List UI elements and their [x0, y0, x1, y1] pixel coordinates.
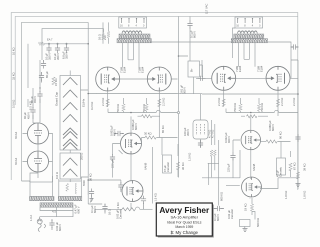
svg-text:6AN8: 6AN8 [252, 163, 256, 171]
EL84 V3 [96, 67, 120, 91]
output transformer T2 secondary box [235, 17, 263, 28]
title block box [156, 203, 212, 236]
resistor cathode V5 [222, 99, 225, 107]
svg-text:6CA4: 6CA4 [14, 131, 18, 139]
svg-text:56 KΩ: 56 KΩ [89, 173, 93, 181]
T1 core hatch upper [119, 34, 150, 38]
wire screen feed top [179, 56, 203, 77]
wire title block feed [152, 147, 154, 204]
svg-text:16 Ω: 16 Ω [108, 209, 112, 215]
svg-text:13 KΩ: 13 KΩ [116, 202, 120, 210]
guard cap box upper [60, 76, 81, 151]
EL84 V5 [212, 66, 236, 90]
svg-text:4.5: 4.5 [52, 210, 56, 214]
wire EL84 row bus [88, 78, 298, 93]
capacitor top center [187, 21, 192, 29]
svg-text:10 KΩ: 10 KΩ [12, 47, 16, 55]
label 33 KOhm [45, 71, 49, 78]
svg-text:400 V: 400 V [113, 129, 117, 136]
resistor 750K V6 [257, 98, 260, 113]
wire right channel top of lower tube [202, 177, 240, 179]
label 5.5 KOhm [29, 100, 33, 110]
resistor 750K V5 [239, 98, 242, 113]
resistor plate V7 horizontal [142, 136, 162, 139]
capacitor 220uF left [110, 154, 115, 162]
resistor 750K V3 [122, 98, 125, 113]
svg-text:6AN8: 6AN8 [144, 162, 148, 170]
resistor plate V9 horizontal [261, 140, 278, 143]
svg-text:65 µF: 65 µF [45, 71, 49, 78]
ground input [90, 196, 94, 203]
T2 terminal 0 [259, 18, 260, 23]
wire bottom right channel [226, 150, 298, 220]
resistor cathode V4 [158, 99, 161, 107]
label 39 Kohm right rail [303, 163, 307, 171]
svg-text:15 KΩ: 15 KΩ [54, 78, 58, 86]
label 5500 ohm winding [82, 180, 86, 186]
node open circle divider [177, 111, 179, 113]
T1 terminal 8 [128, 18, 129, 23]
capacitor box bottom right [240, 220, 251, 227]
label 10uF 350V no1 [44, 53, 51, 60]
wire grid bus left channel [108, 109, 178, 117]
resistor 30K vertical left [176, 150, 179, 177]
resistor right rail [296, 172, 299, 179]
capacitor right rail [295, 134, 300, 142]
T1 core hatch lower [117, 39, 151, 43]
svg-text:210: 210 [103, 35, 107, 40]
label 47uF Ceramic left [163, 161, 170, 172]
capacitor 40uF 450V lower [30, 104, 35, 119]
label 0.022uF 400V [224, 132, 231, 143]
label 7189/EL84 V5 [235, 65, 242, 72]
label 0.1uF 600V top [190, 30, 197, 38]
label 6CA4 lower [14, 157, 18, 165]
label 10uF 350V no2 [53, 53, 60, 60]
winding hatch right [58, 197, 82, 201]
label 0.02uF ceramic bottom mid [116, 208, 123, 219]
label 30 Kohm plate [144, 132, 152, 136]
svg-text:March 1959: March 1959 [175, 225, 193, 229]
label 6N07 right [252, 163, 256, 171]
label 65 Kohm [161, 125, 165, 133]
label 220uF right [227, 163, 231, 172]
wire top center cap branch [189, 16, 191, 61]
label 200 ohm left edge [80, 153, 84, 160]
capacitor C filter 3 [64, 44, 69, 53]
wire T1 left components [103, 22, 109, 43]
chevron 8 [63, 169, 77, 177]
label 750 Kohm g1 V6 [260, 103, 264, 112]
title block shadow [158, 205, 214, 238]
label 2.2 Kohm V3 [101, 98, 105, 106]
title text Avery Fisher [159, 205, 210, 215]
label 100uF 350V [183, 127, 190, 136]
svg-text:Ceramic: Ceramic [279, 166, 283, 177]
svg-text:0.2 KΩ: 0.2 KΩ [90, 102, 94, 110]
svg-text:1.5 KΩ: 1.5 KΩ [154, 193, 158, 201]
svg-text:39 KΩ: 39 KΩ [303, 163, 307, 171]
label 6.8uF 350V [61, 51, 68, 59]
svg-text:600 V: 600 V [193, 31, 197, 38]
capacitor heater can bottom [198, 140, 203, 148]
svg-text:600 V: 600 V [77, 206, 81, 213]
fuse F1 [37, 217, 42, 224]
label 500 Kohm [256, 218, 260, 227]
label EL84s [82, 98, 86, 107]
border frame outer [11, 13, 298, 190]
guard cap box lower [60, 153, 81, 179]
chevron 6 [63, 139, 77, 150]
T1 terminal 16 [121, 18, 122, 23]
resistor small left of T1 [102, 32, 110, 40]
box screen supply [188, 61, 200, 77]
label 0.02uF 600V ac [55, 221, 62, 231]
wire transformer risers [30, 173, 88, 182]
power transformer secondary box right [59, 181, 82, 197]
label 4.7K 4.7K [208, 130, 215, 138]
svg-text:750 KΩ: 750 KΩ [116, 104, 120, 113]
wire guard to bus [81, 29, 104, 90]
T2 terminal 16 [237, 18, 238, 23]
svg-text:2.2 KΩ: 2.2 KΩ [101, 98, 105, 106]
wire screen box down [193, 77, 195, 94]
T2 terminal 8 [245, 18, 246, 23]
svg-text:200 Ω: 200 Ω [80, 153, 84, 160]
power transformer secondary box left [30, 182, 53, 197]
heater can [193, 120, 208, 139]
wire V7 plate right [142, 138, 179, 156]
svg-text:110 Ω: 110 Ω [55, 172, 59, 179]
chevron 3 [63, 103, 77, 111]
rectifier tube V2 6CA4 [28, 151, 49, 172]
label 750 Kohm g1 V4 [142, 104, 146, 113]
svg-text:EA 7: EA 7 [47, 38, 53, 42]
label 56 Kohm input [89, 173, 93, 181]
svg-text:Avery Fisher: Avery Fisher [159, 205, 210, 215]
capacitor C filter 2 [55, 44, 60, 53]
title text My Change [171, 230, 199, 235]
svg-text:33 KΩ: 33 KΩ [12, 72, 16, 80]
svg-text:30 KΩ: 30 KΩ [181, 162, 185, 170]
wire primary leads [40, 207, 73, 217]
svg-text:500 KΩ: 500 KΩ [256, 218, 260, 227]
label 220uF left [111, 159, 115, 168]
chevron 1 [63, 78, 77, 86]
wire V9 plate right [278, 142, 291, 159]
capacitor bottom mid [102, 204, 107, 214]
svg-text:EL84s: EL84s [82, 98, 86, 107]
svg-text:2.2 KΩ: 2.2 KΩ [217, 98, 221, 106]
capacitor node left bottom [141, 196, 146, 210]
T2 terminal 4 [252, 18, 253, 23]
svg-text:Ceramic: Ceramic [230, 208, 234, 219]
wire T2 right to edge [179, 42, 299, 78]
label 750 Kohm g1 V5 [233, 103, 237, 112]
driver tube V10 [242, 177, 262, 197]
label 1.5 Kohm left [188, 153, 192, 161]
svg-text:Ceramic: Ceramic [119, 208, 123, 219]
driver tube V9 [241, 130, 261, 150]
label 40uF 450V lower [23, 112, 30, 119]
label B inside box [190, 68, 194, 72]
wire box corner right channel input [208, 140, 219, 206]
resistor 4.7K a [210, 150, 213, 177]
svg-text:600 KΩ: 600 KΩ [220, 192, 224, 201]
label 2.2 Kohm V6 [280, 98, 284, 106]
EL84 V6 [266, 66, 290, 90]
label 6N07 left [144, 162, 148, 170]
resistor 19K below V10 [250, 198, 253, 215]
capacitor 0.003uF V7 grid [114, 131, 124, 136]
label 0.61uF 600V [180, 84, 187, 94]
T2 terminal labels [236, 25, 261, 28]
wire V9 connections [233, 116, 261, 179]
label 13 Kohm [116, 202, 120, 210]
label 0.003uF 400V [110, 125, 117, 136]
T1 terminal 0 [143, 18, 144, 23]
wire heater can top [200, 94, 202, 115]
svg-text:350 V: 350 V [56, 53, 60, 60]
label 0.1uF 600V input [90, 205, 97, 213]
svg-text:1.0 A: 1.0 A [29, 215, 33, 221]
svg-text:EL84: EL84 [123, 66, 127, 73]
label 7189/EL84 V4 [138, 66, 145, 73]
output transformer T1 secondary box [119, 17, 147, 28]
label 40uF 450V upper [30, 96, 37, 103]
wire grid bus right channel [226, 109, 298, 117]
PSU enclosure wire [42, 29, 104, 60]
driver tube V8 [122, 181, 143, 202]
svg-text:B+: B+ [190, 68, 194, 72]
rectifier tube V1 6CA4 [28, 123, 49, 144]
T2 secondary coil [238, 31, 258, 34]
label 0.02uF ceramic right [227, 208, 234, 219]
svg-text:2.2 KΩ: 2.2 KΩ [162, 98, 166, 106]
resistor 67K vertical right [289, 151, 292, 177]
label 110 ohm winding [55, 172, 59, 179]
resistor cathode V3 [106, 99, 109, 107]
svg-text:SA-16 Amplifier: SA-16 Amplifier [171, 215, 199, 220]
svg-text:65 KΩ: 65 KΩ [161, 125, 165, 133]
label 4.5 [52, 210, 56, 214]
ground bottom right cap [243, 227, 248, 232]
svg-text:Guard Cap: Guard Cap [55, 91, 59, 106]
wire heater resistors [212, 120, 215, 145]
svg-text:400 V: 400 V [227, 136, 231, 143]
T1 terminal 4 [136, 18, 137, 23]
resistor between grids right [247, 115, 258, 118]
label 2.2 Kohm V5 [217, 98, 221, 106]
wire rectifier to transformer [38, 134, 53, 183]
chevron 4 [63, 115, 77, 123]
svg-text:350 V: 350 V [64, 52, 68, 59]
resistor 15 KOhm vertical [39, 72, 44, 83]
T1 secondary coil [122, 31, 142, 34]
resistor between grids [142, 115, 153, 118]
label 33 Kohm left strip [12, 72, 16, 80]
wire rectifier return corner [22, 181, 30, 182]
wire T1 right to divider [151, 42, 178, 56]
border frame second line [15, 16, 297, 105]
capacitor input coupling [89, 189, 94, 197]
winding hatch left [30, 197, 55, 201]
AC cord squiggle [38, 224, 45, 232]
svg-text:600 V: 600 V [134, 123, 138, 130]
label 1.0 A [29, 215, 33, 221]
driver tube V7 [121, 133, 142, 154]
svg-text:30 KΩ: 30 KΩ [144, 132, 152, 136]
node dots junctions [87, 43, 298, 181]
resistor 4.7K b [213, 150, 216, 170]
label 67 Kohm [293, 162, 297, 170]
svg-text:600 V: 600 V [216, 214, 220, 221]
label 2.2 Kohm V4 [162, 98, 166, 106]
primary hatch wide [40, 203, 73, 207]
ground right rail [296, 184, 301, 187]
capacitor snubber right [291, 44, 299, 49]
capacitor line cap [49, 219, 54, 230]
resistor cathode V6 [276, 99, 279, 107]
svg-text:67 KΩ: 67 KΩ [293, 162, 297, 170]
resistor 33 KOhm vertical left [41, 60, 46, 69]
title text SA-16 Amplifier [171, 215, 199, 220]
T2 core hatch lower [231, 39, 267, 43]
T2 primary leads down [239, 43, 256, 67]
resistor inside winding box [66, 184, 69, 192]
wire B+ bus left [87, 22, 89, 195]
chevron 7 [63, 158, 77, 166]
label 2.2 Kohm right edge [292, 98, 296, 106]
wire right edge rail [297, 60, 299, 189]
label 750 Kohm g1 V3 [116, 104, 120, 113]
wire PSU filter bus [44, 43, 88, 45]
capacitor 47uF ceramic box [163, 155, 172, 173]
wire V7 connections [113, 116, 132, 181]
label 7189/EL84 V6 [257, 65, 264, 72]
svg-text:19 KΩ: 19 KΩ [244, 203, 248, 211]
svg-text:450 V: 450 V [33, 96, 37, 103]
wire guard cap to bus [69, 71, 71, 183]
svg-text:1.5 KΩ: 1.5 KΩ [188, 153, 192, 161]
svg-text:EL84: EL84 [260, 65, 264, 72]
svg-text:350 V: 350 V [186, 129, 190, 136]
svg-text:117 VAC: 117 VAC [205, 4, 209, 14]
capacitor V5 grid feed [198, 76, 206, 81]
svg-text:350 V: 350 V [47, 53, 51, 60]
T1 primary leads down [123, 43, 140, 68]
svg-text:6CA4: 6CA4 [14, 157, 18, 165]
wire rectifier plates left [23, 134, 28, 162]
title text March 1959 [175, 225, 193, 229]
svg-text:90 KΩ: 90 KΩ [279, 131, 283, 139]
label EA7 small [47, 38, 53, 42]
svg-text:16 Ω: 16 Ω [98, 34, 102, 40]
label 90 Kohm [279, 131, 283, 139]
chevron 5 double [63, 128, 77, 139]
label 1.8 Kohm right [284, 191, 288, 199]
svg-text:EL84: EL84 [141, 66, 145, 73]
chevron 2 [63, 90, 77, 98]
label 0.1uF 600V feedback [213, 213, 220, 221]
wire bottom bus left channel [88, 180, 131, 209]
label 0.068uF 600V [131, 119, 138, 130]
label 30 Kohm vertical [181, 162, 185, 170]
wire EL84 cathodes down [108, 90, 278, 137]
svg-text:750 KΩ: 750 KΩ [233, 103, 237, 112]
svg-text:5500: 5500 [82, 180, 86, 186]
svg-text:Ideal For Quad ESLs: Ideal For Quad ESLs [167, 221, 202, 225]
resistor 750K V4 [145, 98, 148, 113]
T2 core hatch upper [234, 34, 264, 38]
title text Ideal For Quad ESLs [167, 221, 202, 225]
wire mid horizontal y94 [96, 93, 298, 96]
wire T2 left drop [233, 28, 236, 58]
EL84 V4 [147, 67, 171, 91]
svg-text:600 V: 600 V [183, 87, 187, 94]
T1 terminal labels [120, 25, 145, 28]
resistor on filter bus [39, 42, 45, 45]
capacitor feedback bottom right [213, 206, 224, 211]
svg-text:2.2 KΩ: 2.2 KΩ [280, 98, 284, 106]
label 117 VAC top [205, 4, 209, 14]
label 210 ohm [103, 35, 107, 40]
capacitor 40uF 450V upper [37, 88, 42, 103]
label 0.47uF 600V bottom [74, 204, 81, 214]
wire heater can [200, 115, 202, 147]
capacitor 47uF ceramic right [277, 158, 286, 175]
capacitor input coupling V8 [118, 182, 123, 190]
svg-text:Ceramic: Ceramic [166, 161, 170, 172]
capacitor C filter 1 [46, 44, 51, 53]
wire psu column verticals [28, 44, 40, 123]
label 1.5 Kohm above title [154, 193, 158, 201]
label 600 Kohm [220, 192, 224, 201]
resistor 13K below V8 [122, 207, 153, 211]
label 10 Kohm left strip [12, 47, 16, 55]
svg-text:1.8 KΩ: 1.8 KΩ [284, 191, 288, 199]
label 0.2 Kohm left [90, 102, 94, 110]
svg-text:5.5 KΩ: 5.5 KΩ [12, 100, 16, 108]
label 16 ohm [98, 34, 102, 40]
border frame inner wire line [22, 22, 89, 181]
node dots on filter bus [48, 43, 67, 44]
svg-text:750 KΩ: 750 KΩ [260, 103, 264, 112]
label 6CA4 upper [14, 131, 18, 139]
svg-text:600 V: 600 V [58, 224, 62, 231]
svg-text:$: My Change: $: My Change [171, 230, 199, 235]
wire channel divider [179, 16, 203, 177]
svg-text:1.8 KΩ: 1.8 KΩ [303, 191, 307, 199]
label Guard Cap [55, 91, 59, 106]
label 47uF Ceramic right [276, 166, 283, 177]
resistor 15K psu [52, 77, 55, 85]
label 19 Kohm [244, 203, 248, 211]
svg-text:220 µF: 220 µF [227, 163, 231, 172]
label 0.068uF 600V right [268, 120, 275, 131]
svg-text:750 KΩ: 750 KΩ [142, 104, 146, 113]
coil inside winding box [75, 183, 76, 194]
heater can dashes [197, 124, 205, 135]
capacitor 220uF right [230, 153, 235, 161]
label 7189/EL84 V3 [120, 66, 127, 73]
label 5.5 Kohm left strip [12, 100, 16, 108]
label 15 KOhm [54, 78, 58, 86]
svg-text:600 V: 600 V [271, 124, 275, 131]
svg-text:2.2 KΩ: 2.2 KΩ [292, 98, 296, 106]
svg-text:EL84: EL84 [238, 65, 242, 72]
label 16 ohm bottom [108, 209, 112, 215]
